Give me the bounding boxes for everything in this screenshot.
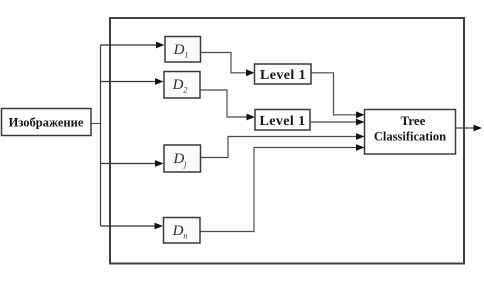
- svg-text:Изображение: Изображение: [9, 116, 84, 130]
- svg-text:Tree: Tree: [401, 113, 426, 128]
- svg-text:Level 1: Level 1: [260, 68, 306, 83]
- svg-text:Level 1: Level 1: [260, 114, 306, 129]
- svg-text:Classification: Classification: [374, 130, 446, 144]
